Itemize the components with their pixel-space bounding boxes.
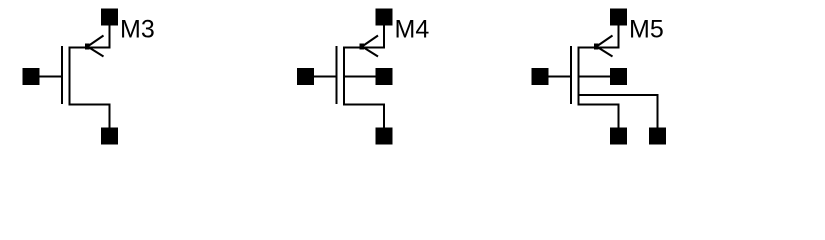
drain terminal square (M3) xyxy=(101,9,118,26)
source wire horizontal (M3) xyxy=(69,103,111,105)
gate terminal square (M4) xyxy=(297,68,314,85)
gate bar (M3) xyxy=(61,46,63,104)
drain terminal square (M4) xyxy=(376,9,393,26)
source wire horizontal (M4) xyxy=(343,103,385,105)
bulk terminal square (M5) xyxy=(610,68,627,85)
source terminal square (M3) xyxy=(101,128,118,145)
source terminal square (M5) xyxy=(610,128,627,145)
source wire 2 vertical (M5) xyxy=(657,94,659,128)
gate terminal square (M5) xyxy=(532,68,549,85)
wire drain vertical (M4) xyxy=(383,25,385,49)
wire drain horizontal (M3) xyxy=(69,47,111,49)
source terminal 2 square (M5) xyxy=(649,128,666,145)
svg-text:M4: M4 xyxy=(395,16,430,44)
bulk wire (M5) xyxy=(578,76,611,78)
drain terminal square (M5) xyxy=(610,9,627,26)
source wire horizontal (M5) xyxy=(578,103,620,105)
svg-text:M3: M3 xyxy=(120,16,155,44)
source wire vertical (M4) xyxy=(383,104,385,128)
wire drain horizontal (M5) xyxy=(578,47,620,49)
arrow lower barb (M3) xyxy=(88,47,104,57)
transistor M4 xyxy=(297,9,393,145)
source wire 2 horizontal (M5) xyxy=(578,94,659,96)
bulk wire (M4) xyxy=(343,76,376,78)
gate bar (M4) xyxy=(336,46,338,104)
channel bar (M5) xyxy=(578,47,580,106)
bulk terminal square (M4) xyxy=(376,68,393,85)
wire drain vertical (M3) xyxy=(109,25,111,49)
arrow lower barb (M5) xyxy=(597,47,613,57)
arrow upper barb (M5) xyxy=(597,36,613,47)
arrow dot (M5) xyxy=(594,44,599,50)
gate terminal square (M3) xyxy=(23,68,40,85)
wire gate (M4) xyxy=(314,76,338,78)
wire gate (M5) xyxy=(548,76,572,78)
arrow lower barb (M4) xyxy=(362,47,378,57)
arrow dot (M4) xyxy=(360,44,365,50)
arrow upper barb (M4) xyxy=(362,36,378,47)
source terminal square (M4) xyxy=(376,128,393,145)
arrow dot (M3) xyxy=(85,44,90,50)
wire drain vertical (M5) xyxy=(618,25,620,49)
source wire vertical (M3) xyxy=(109,104,111,128)
transistor M3 xyxy=(23,9,119,145)
source wire vertical (M5) xyxy=(618,104,620,128)
wire drain horizontal (M4) xyxy=(343,47,385,49)
gate bar (M5) xyxy=(570,46,572,104)
channel bar (M4) xyxy=(343,47,345,106)
transistor M5 xyxy=(532,9,667,145)
channel bar (M3) xyxy=(69,47,71,106)
arrow upper barb (M3) xyxy=(88,36,104,47)
svg-text:M5: M5 xyxy=(629,16,664,44)
wire gate (M3) xyxy=(39,76,63,78)
